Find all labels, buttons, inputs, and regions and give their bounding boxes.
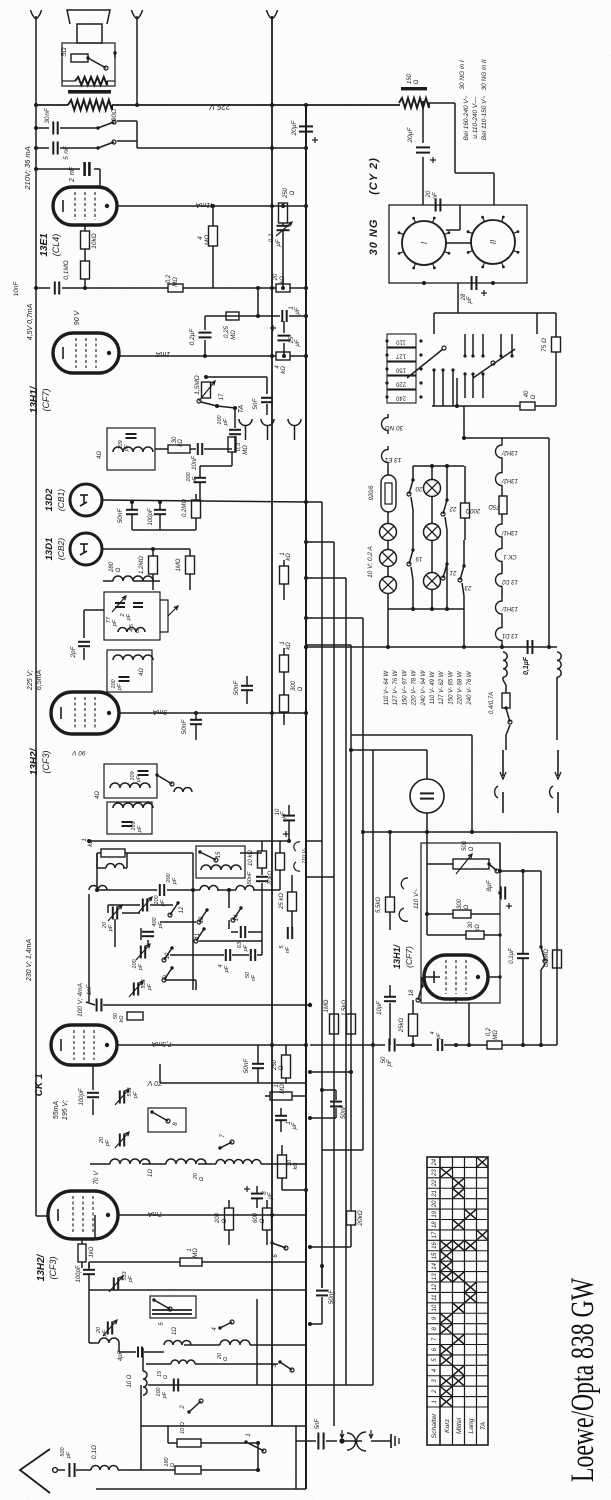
- svg-text:pF: pF: [192, 476, 198, 484]
- ecap 8uF b: [500, 887, 502, 900]
- svg-text:15: 15: [432, 1252, 438, 1259]
- svg-text:17: 17: [219, 393, 225, 400]
- svg-text:10 V; 0,2 A: 10 V; 0,2 A: [367, 546, 374, 578]
- coil 15 ohm row: [171, 1360, 195, 1364]
- switch 11: [196, 929, 204, 941]
- svg-text:10nF: 10nF: [13, 281, 20, 297]
- svg-text:230 V; 1,4mA: 230 V; 1,4mA: [26, 939, 33, 983]
- switch 2: [189, 1401, 201, 1412]
- wire y=1072: [310, 1071, 351, 1073]
- svg-text:0,2: 0,2: [486, 1027, 492, 1036]
- svg-text:21: 21: [450, 569, 458, 575]
- svg-text:Ω: Ω: [222, 1218, 228, 1223]
- svg-text:Ω: Ω: [279, 1065, 285, 1070]
- svg-text:7,5mA: 7,5mA: [152, 1040, 173, 1047]
- capacitor 200pF: [194, 477, 206, 479]
- switch 23: [460, 566, 464, 580]
- svg-text:200: 200: [215, 1212, 221, 1224]
- svg-text:2: 2: [180, 1405, 186, 1410]
- svg-text:II: II: [489, 239, 498, 244]
- svg-text:Ω: Ω: [260, 1218, 266, 1223]
- svg-text:µF: µF: [467, 296, 473, 303]
- resistor 5 ohm: [71, 54, 88, 62]
- lamp col2 L4: [424, 480, 441, 497]
- jack cup b: [261, 419, 274, 426]
- voltage selector I: [387, 334, 416, 347]
- tube 13D1 (CB2): [70, 533, 102, 565]
- resistor 5.5k: [386, 897, 395, 912]
- svg-text:18: 18: [409, 989, 415, 996]
- svg-text:11: 11: [432, 1295, 438, 1301]
- right supply vertical: [548, 438, 550, 647]
- svg-text:127 V~ 76 W: 127 V~ 76 W: [393, 669, 399, 705]
- wire det bottom: [132, 529, 196, 531]
- capacitor 2nF grid: [36, 168, 80, 170]
- wires row1: [90, 1163, 110, 1165]
- wire right of 150: [454, 103, 456, 173]
- svg-text:(CF7): (CF7): [404, 946, 414, 968]
- capacitor 5nF row2: [36, 147, 49, 149]
- resistor 0.2M inline: [168, 284, 183, 292]
- svg-text:50nF: 50nF: [181, 719, 188, 735]
- svg-text:pF: pF: [223, 418, 229, 426]
- svg-text:Bei 110-150 V~: Bei 110-150 V~: [481, 96, 488, 141]
- tube 13H2/2 (CF3): [51, 692, 119, 734]
- svg-text:µF: µF: [276, 239, 282, 246]
- capacitor 5nF TA: [266, 377, 268, 394]
- trimmer 533 g: [113, 1278, 115, 1291]
- svg-text:1MΩ: 1MΩ: [176, 558, 182, 571]
- svg-text:13H1/: 13H1/: [501, 529, 518, 535]
- capacitor 10nF: [36, 287, 50, 289]
- capacitor 5nF TA2: [296, 1440, 316, 1442]
- capacitor 20nF rect: [435, 199, 437, 212]
- svg-text:µF: µF: [281, 811, 287, 818]
- svg-text:kΩ: kΩ: [88, 839, 94, 847]
- svg-text:pF: pF: [243, 944, 249, 952]
- capacitor 2pF: [83, 610, 85, 638]
- svg-text:pF: pF: [105, 1139, 111, 1147]
- resistor 1M ck: [265, 1095, 270, 1097]
- svg-text:MΩ: MΩ: [493, 1030, 499, 1040]
- svg-text:0,2: 0,2: [166, 274, 172, 283]
- resistor 10k b: [278, 1155, 287, 1178]
- main bus wire y=105: [36, 104, 68, 106]
- capacitor 50nF 2: [241, 685, 253, 687]
- svg-text:1,5MΩ: 1,5MΩ: [194, 375, 201, 394]
- coil row1 c: [216, 1160, 261, 1165]
- svg-text:20: 20: [415, 485, 423, 491]
- svg-text:pF: pF: [436, 1032, 442, 1040]
- bundle wire x=334: [333, 542, 335, 1426]
- plug pin b: [557, 750, 559, 776]
- svg-text:13H1/: 13H1/: [392, 944, 402, 970]
- svg-text:500: 500: [462, 840, 468, 851]
- resistor 1M g2: [89, 1261, 180, 1263]
- svg-text:Lang: Lang: [468, 1418, 475, 1433]
- lamp circuit top wire: [413, 465, 464, 467]
- svg-text:pF: pF: [108, 924, 114, 932]
- svg-text:300: 300: [457, 898, 463, 909]
- svg-text:pF: pF: [133, 1091, 139, 1099]
- IF transformer 2 box a: [104, 764, 157, 798]
- svg-text:13 D2: 13 D2: [501, 578, 518, 584]
- osc coil lower box: [107, 650, 152, 692]
- capacitor 100pF det: [154, 509, 166, 511]
- svg-text:30nF: 30nF: [44, 107, 51, 123]
- svg-text:0,3: 0,3: [236, 442, 242, 451]
- svg-text:µF: µF: [295, 339, 301, 346]
- svg-text:24: 24: [432, 1158, 438, 1166]
- switch 14: [233, 908, 241, 920]
- capacitor 100pF osc: [119, 676, 130, 678]
- svg-text:5Ω: 5Ω: [61, 47, 68, 57]
- resistor 0.3M: [214, 448, 232, 450]
- pot 500 ohm: [453, 859, 489, 869]
- tube 13E1 (CL4): [53, 187, 117, 225]
- plug pin a: [502, 750, 504, 776]
- wire 20k to bus: [310, 1246, 351, 1248]
- resistor 250 ohm: [279, 203, 288, 223]
- svg-text:pF: pF: [147, 983, 153, 991]
- svg-text:1nF: 1nF: [87, 984, 93, 995]
- heater tap 13E1: [382, 446, 388, 466]
- svg-text:0,25: 0,25: [224, 326, 230, 338]
- rectifier disc II: [471, 220, 515, 264]
- coil under 1k: [106, 864, 124, 869]
- svg-text:5,5kΩ: 5,5kΩ: [376, 897, 382, 913]
- svg-text:100 V; 4mA: 100 V; 4mA: [77, 983, 84, 1017]
- svg-text:(CL4): (CL4): [51, 234, 61, 257]
- svg-text:280: 280: [109, 561, 115, 573]
- capacitor 100pF g2: [173, 1379, 175, 1392]
- svg-text:nF: nF: [433, 192, 439, 199]
- svg-text:20kΩ: 20kΩ: [268, 870, 274, 886]
- resistor 600 out: [263, 1208, 272, 1230]
- output matching box: [62, 43, 115, 86]
- heater 13D1: [496, 624, 502, 644]
- svg-text:13H2/: 13H2/: [501, 449, 518, 455]
- svg-text:MΩ: MΩ: [204, 235, 211, 245]
- capacitor 0.2uF v: [204, 316, 206, 330]
- switch 24 right: [540, 871, 542, 947]
- svg-text:30 NG in I: 30 NG in I: [459, 60, 466, 89]
- svg-text:kΩ: kΩ: [475, 924, 481, 932]
- heater 13D2: [496, 570, 502, 590]
- selector I stubs: [433, 370, 435, 406]
- coil row1 b: [166, 1159, 206, 1164]
- capacitor 50nF eye: [256, 876, 268, 878]
- capacitor 109pF t2a: [138, 770, 149, 772]
- switch table X marks: [477, 1158, 488, 1167]
- svg-text:5nF: 5nF: [63, 145, 70, 160]
- svg-text:pF: pF: [160, 899, 166, 907]
- voltage selector II: [464, 334, 466, 356]
- wire diode1 out: [102, 500, 306, 502]
- resistor 15k mid: [347, 1014, 356, 1034]
- capacitor 109pF t2b: [122, 821, 133, 823]
- pot 1.5M: [205, 376, 267, 378]
- svg-text:kΩ: kΩ: [280, 276, 286, 284]
- cathode resistor 10k: [84, 225, 86, 231]
- svg-text:6,5mA: 6,5mA: [36, 670, 43, 691]
- IF transformer 1 box: [107, 428, 155, 470]
- svg-text:22: 22: [432, 1179, 438, 1187]
- hooks 110V-: [294, 842, 300, 851]
- resistor 20k hang: [347, 1211, 356, 1225]
- svg-text:30: 30: [468, 921, 474, 928]
- matrix coil a: [89, 886, 107, 890]
- wire rect to selector: [457, 283, 459, 313]
- svg-text:13D2: 13D2: [44, 488, 55, 511]
- svg-text:CK 1: CK 1: [503, 553, 516, 559]
- svg-text:1Ω: 1Ω: [172, 1327, 178, 1335]
- capacitor 50pF series: [388, 1039, 390, 1052]
- anode supply wire y=1045 right: [310, 1044, 385, 1046]
- svg-text:240: 240: [395, 395, 406, 401]
- anode wire CF3: [119, 712, 306, 714]
- svg-text:210V; 36 mA: 210V; 36 mA: [23, 146, 32, 190]
- svg-text:23: 23: [464, 584, 472, 590]
- svg-text:pF: pF: [387, 1059, 393, 1067]
- svg-text:1,2MΩ: 1,2MΩ: [139, 556, 145, 574]
- jack cup c: [288, 419, 301, 426]
- wire 250/0.2uF down: [282, 250, 284, 288]
- rectifier box: [389, 205, 527, 283]
- svg-text:12: 12: [179, 906, 185, 913]
- lamp col2 L5: [424, 524, 441, 541]
- resistor 300 ohm: [280, 695, 289, 712]
- wire left bus x=36: [35, 16, 37, 1216]
- switch 4: [220, 1322, 232, 1328]
- wire bus x=306 long: [305, 105, 307, 1426]
- svg-text:1Ω: 1Ω: [148, 1169, 154, 1177]
- svg-text:20µF: 20µF: [291, 120, 298, 137]
- svg-text:nF: nF: [285, 946, 291, 953]
- svg-text:110 V- 49 W: 110 V- 49 W: [430, 670, 436, 704]
- switch table frame: [427, 1157, 488, 1445]
- svg-text:100pF: 100pF: [79, 1088, 85, 1105]
- wire 70V: [160, 1082, 306, 1084]
- svg-text:75Ω: 75Ω: [488, 503, 500, 509]
- switch 21: [443, 564, 447, 578]
- svg-text:195 V;: 195 V;: [62, 1100, 69, 1120]
- svg-text:CK 1: CK 1: [34, 1073, 45, 1096]
- svg-text:127 V- 62 W: 127 V- 62 W: [439, 670, 445, 704]
- wire y=841: [89, 840, 289, 842]
- matrix wires: [88, 894, 90, 1002]
- switch 19: [409, 550, 413, 564]
- svg-text:55mA: 55mA: [53, 1101, 60, 1120]
- svg-text:10nF: 10nF: [192, 456, 198, 470]
- mid connections: [306, 840, 322, 842]
- svg-text:1MΩ: 1MΩ: [324, 999, 330, 1012]
- svg-text:10pF: 10pF: [377, 1001, 383, 1015]
- svg-text:(CB1): (CB1): [56, 489, 66, 511]
- switch 8: [148, 1108, 186, 1132]
- coil 10 ohm vert: [143, 1371, 147, 1395]
- tube b anode wire: [488, 976, 500, 978]
- svg-text:Ω: Ω: [163, 1375, 169, 1379]
- svg-text:110 V~: 110 V~: [413, 889, 420, 910]
- resistor 20k eye: [276, 853, 285, 870]
- svg-text:MΩ: MΩ: [231, 330, 237, 340]
- svg-text:Ω: Ω: [531, 394, 537, 399]
- svg-text:100pF: 100pF: [148, 508, 154, 525]
- svg-text:19: 19: [415, 555, 422, 561]
- svg-text:(CF7): (CF7): [41, 389, 51, 412]
- switch 20: [409, 480, 413, 494]
- switch 3: [280, 1362, 292, 1370]
- svg-text:Ω: Ω: [469, 846, 475, 851]
- svg-text:u.110-240 V—: u.110-240 V—: [472, 97, 479, 139]
- svg-text:nF: nF: [251, 974, 257, 981]
- wire x=137 top: [136, 16, 138, 105]
- svg-text:13H1/: 13H1/: [29, 385, 40, 413]
- resistor 1.2M: [149, 556, 158, 574]
- svg-text:10kΩ: 10kΩ: [91, 233, 98, 248]
- capacitor 0.2uF: [277, 225, 290, 227]
- svg-text:225 V: 225 V: [209, 102, 232, 111]
- resistor 0.2M det: [192, 500, 201, 518]
- svg-text:0,1µF: 0,1µF: [523, 656, 530, 675]
- resistor 0.2M b: [487, 1041, 502, 1049]
- svg-text:13D1: 13D1: [44, 538, 55, 561]
- svg-text:13 D1: 13 D1: [502, 632, 518, 638]
- svg-text:18: 18: [432, 1221, 438, 1228]
- vertical tube box drop: [468, 1003, 470, 1045]
- wire row B y=316: [205, 315, 280, 317]
- trimmer 533 ck: [119, 1091, 121, 1104]
- capacitor 1uF inline: [281, 310, 283, 322]
- svg-text:150: 150: [407, 73, 413, 84]
- svg-text:Bei 160-240 V~: Bei 160-240 V~: [463, 95, 470, 140]
- svg-text:pF: pF: [124, 444, 130, 452]
- svg-text:110: 110: [396, 339, 406, 345]
- svg-text:Schalter: Schalter: [431, 1413, 438, 1439]
- svg-text:13H2/: 13H2/: [36, 1253, 47, 1281]
- wire y=871 right: [500, 870, 541, 872]
- ecap 25uF: [270, 327, 276, 329]
- svg-text:TA: TA: [480, 1421, 487, 1430]
- selector II arm: [473, 349, 515, 378]
- heater 13H2/2: [496, 441, 502, 462]
- trimmer 100pF m: [142, 899, 144, 912]
- resistor 150 zig: [401, 87, 427, 90]
- capacitor 0.1uF mains: [527, 640, 529, 654]
- ecap 8uF out: [251, 1193, 263, 1195]
- resistor 1M mid: [330, 1014, 339, 1034]
- bundle wire x=322: [321, 502, 323, 1288]
- svg-text:15: 15: [216, 851, 222, 858]
- IF transformer 2 box b: [107, 802, 152, 834]
- svg-text:4Ω: 4Ω: [139, 668, 145, 676]
- svg-text:20: 20: [273, 273, 279, 281]
- box switch 15: [196, 846, 245, 878]
- svg-text:22: 22: [449, 505, 457, 511]
- svg-text:19: 19: [432, 1210, 438, 1217]
- svg-text:150 V~ 97 W: 150 V~ 97 W: [402, 669, 408, 705]
- switch 7: [220, 1142, 232, 1148]
- jack TA bottom: [339, 1438, 344, 1443]
- svg-text:250: 250: [283, 187, 289, 199]
- svg-text:kΩ: kΩ: [119, 1016, 125, 1023]
- svg-text:13: 13: [199, 916, 205, 923]
- svg-text:1mA: 1mA: [155, 350, 170, 357]
- main low wire y=647: [306, 646, 557, 648]
- svg-text:30 NG: 30 NG: [385, 424, 404, 431]
- coil row2 b: [164, 1341, 191, 1346]
- svg-text:Ω: Ω: [223, 1357, 229, 1361]
- svg-text:14: 14: [432, 1262, 438, 1269]
- capacitor 4pF series: [437, 1039, 439, 1051]
- resistor 1M: [186, 556, 195, 574]
- svg-text:10 kΩ: 10 kΩ: [248, 850, 254, 866]
- anode wire CF7: [119, 355, 276, 357]
- tube 13H2/1 (CF3): [48, 1191, 118, 1239]
- heater chain top wire: [464, 437, 502, 439]
- jack bracket b: [357, 1432, 366, 1451]
- svg-text:13H2/: 13H2/: [501, 477, 518, 483]
- svg-text:220: 220: [395, 381, 406, 387]
- svg-text:4Ω: 4Ω: [95, 791, 101, 799]
- bundle wire x=373: [372, 750, 374, 1385]
- resistor 20k inline: [276, 284, 290, 292]
- coil row2 a: [99, 1338, 119, 1343]
- svg-text:25 kΩ: 25 kΩ: [279, 893, 285, 910]
- svg-text:150: 150: [395, 367, 406, 373]
- vertical right x=557: [556, 832, 558, 1045]
- svg-text:Ω: Ω: [199, 1177, 205, 1181]
- switch 22: [443, 500, 447, 514]
- svg-text:7mA: 7mA: [147, 1210, 162, 1217]
- wire row A y=290: [62, 287, 168, 289]
- mid horizontal y=578: [306, 577, 346, 579]
- svg-text:110 V~ 64 W: 110 V~ 64 W: [384, 669, 390, 705]
- capacitor 50nF det: [126, 509, 138, 511]
- capacitor 50nF ck: [252, 1063, 264, 1065]
- svg-text:8µF: 8µF: [486, 879, 493, 891]
- trimmer 20pF g: [107, 1322, 109, 1335]
- svg-text:50nF: 50nF: [117, 508, 124, 524]
- capacitor 10nF 2: [197, 443, 199, 455]
- selector feed to plug area: [351, 734, 472, 736]
- tube 13H1/2 (CF7) IF: [53, 333, 119, 373]
- anode wire CK1: [117, 1044, 306, 1046]
- svg-text:21: 21: [432, 1190, 438, 1198]
- choke mains b: [557, 652, 561, 677]
- switch 13: [199, 910, 207, 922]
- svg-text:23: 23: [432, 1169, 438, 1177]
- lamp wires left: [387, 466, 389, 475]
- resistor 4k inline: [276, 352, 290, 360]
- svg-text:13: 13: [432, 1273, 438, 1280]
- svg-text:90 V: 90 V: [74, 309, 81, 325]
- svg-text:pF: pF: [224, 965, 230, 973]
- resistor 10k eye: [258, 851, 267, 868]
- wire bus x=272 long: [267, 10, 273, 19]
- svg-text:20µF: 20µF: [407, 127, 414, 144]
- capacitor 4pF m: [225, 949, 227, 961]
- svg-text:kΩ: kΩ: [178, 439, 184, 447]
- trimmer 100pF m2: [140, 946, 142, 959]
- selector bottom wire: [432, 405, 520, 407]
- svg-text:1: 1: [246, 1433, 252, 1436]
- jack cup a: [239, 419, 252, 426]
- lamp bottom wire: [388, 608, 464, 610]
- svg-text:11: 11: [195, 933, 201, 939]
- svg-text:pF: pF: [102, 1329, 108, 1337]
